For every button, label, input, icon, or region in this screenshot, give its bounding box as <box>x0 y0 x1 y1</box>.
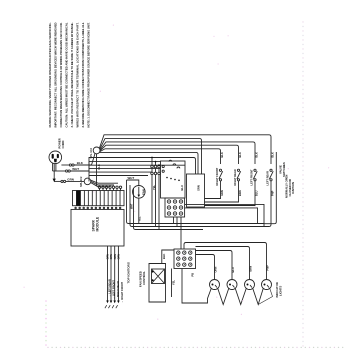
label INDICATOR LIGHTS <box>275 282 283 297</box>
label BLK switch LEFT REAR <box>270 152 274 157</box>
svg-text:WHT: WHT <box>72 167 79 171</box>
junction loops on bus near B1 <box>169 160 180 168</box>
terminal strip TB1 <box>73 191 125 206</box>
fan speed control box B3 <box>149 250 174 302</box>
fan motor M1 <box>133 186 146 199</box>
label GRN <box>67 177 74 181</box>
svg-text:MODULE: MODULE <box>96 216 100 231</box>
wire BLK plug to splice SPL-1 <box>61 154 95 167</box>
valve switch RIGHT REAR <box>205 169 241 202</box>
svg-text:CORD: CORD <box>61 141 65 149</box>
label BLK switch RIGHT FRONT <box>220 152 224 157</box>
splice SPL-1 <box>93 147 100 154</box>
label SPL 1C2 lower <box>79 176 83 187</box>
svg-text:BLK: BLK <box>162 254 166 259</box>
valve switch RIGHT FRONT <box>205 169 223 198</box>
svg-text:WHT: WHT <box>128 176 135 180</box>
svg-text:SPL 1C2: SPL 1C2 <box>79 176 83 187</box>
svg-text:CAUTION: ALL WIRES MUST BE CON: CAUTION: ALL WIRES MUST BE CONNECTED AND… <box>65 22 69 127</box>
svg-text:BLK: BLK <box>220 152 224 157</box>
ground arrow <box>53 177 56 183</box>
splice SPL-2 <box>84 178 91 185</box>
svg-text:2. BEFORE REMOVING WIRE CONNEC: 2. BEFORE REMOVING WIRE CONNECTIONS FROM… <box>81 22 85 127</box>
fan speed switch S5 <box>152 269 165 284</box>
wire bus middle group <box>89 158 196 182</box>
spark module top pins <box>75 207 121 209</box>
svg-text:ORN: ORN <box>214 267 218 273</box>
svg-text:YEL: YEL <box>137 216 141 221</box>
label wire color BLU <box>254 191 258 196</box>
labels light wire colors <box>214 265 270 273</box>
svg-text:BLK: BLK <box>77 161 84 165</box>
scan artifact dotted column left <box>45 300 47 346</box>
label SPARK MODULE <box>91 216 99 231</box>
svg-text:BRN: BRN <box>238 190 242 196</box>
wire WHT plug to bus <box>53 170 89 172</box>
svg-text:BRN: BRN <box>249 266 253 272</box>
note text block <box>48 22 91 128</box>
wire YEL below CB2 <box>171 269 173 298</box>
svg-text:BLK: BLK <box>238 152 242 157</box>
label YEL left of B1 <box>152 185 156 190</box>
label FAN SPEED CONTROL <box>138 271 146 287</box>
svg-text:→ LEFT REAR: → LEFT REAR <box>108 279 112 297</box>
wire cord down from plug <box>53 163 56 177</box>
svg-text:ORN: ORN <box>118 254 121 260</box>
svg-text:3. CHECK VOLTAGE AT WALL RECEP: 3. CHECK VOLTAGE AT WALL RECEPTACLE TO B… <box>70 22 74 127</box>
svg-text:WIRES WITH RESPECT TO THEIR TE: WIRES WITH RESPECT TO THEIR TERMINAL LOC… <box>76 22 80 127</box>
svg-text:→ RIGHT FRONT: → RIGHT FRONT <box>120 282 124 303</box>
svg-text:DURING SERVICING. VERIFY PROPE: DURING SERVICING. VERIFY PROPER OPERATIO… <box>48 22 52 127</box>
svg-text:BLU: BLU <box>231 267 235 272</box>
svg-text:YEL: YEL <box>152 185 156 190</box>
svg-text:PB: PB <box>191 273 195 277</box>
label BLK switch LEFT FRONT <box>254 152 258 157</box>
wires spark module to top ignitors <box>105 246 120 308</box>
scan artifact dotted column right <box>302 21 303 346</box>
svg-text:GRN: GRN <box>197 185 201 191</box>
label BLU in B1 <box>180 185 184 190</box>
svg-text:BLK: BLK <box>270 152 274 157</box>
svg-text:GRN: GRN <box>220 190 224 196</box>
labels ORN on ignitor wires <box>107 254 121 260</box>
svg-text:RIGHT REAR: RIGHT REAR <box>233 169 237 185</box>
label wire color BRN <box>238 190 242 196</box>
power cord plug P1 <box>49 151 62 164</box>
wires CB1 right exits <box>185 204 264 226</box>
scan artifact dotted row bottom <box>47 347 343 348</box>
label WHT <box>72 167 79 171</box>
labels ignitor names <box>108 279 124 303</box>
svg-text:FAN: FAN <box>142 189 146 195</box>
junction dots under B1 <box>166 177 180 181</box>
svg-text:LEFT REAR: LEFT REAR <box>265 171 269 186</box>
label WHT small <box>130 203 133 209</box>
gas valve box B2 <box>187 174 205 207</box>
wire feed indicator light 2 <box>196 251 233 280</box>
indicator light L3 <box>245 280 255 290</box>
valve switch LEFT REAR <box>269 169 273 183</box>
indicator light L2 <box>227 280 237 290</box>
svg-text:→ RIGHT REAR: → RIGHT REAR <box>116 281 120 301</box>
label switch name RIGHT REAR <box>233 169 237 185</box>
wire feed indicator light 3 <box>196 247 250 280</box>
svg-text:BLU: BLU <box>180 185 184 190</box>
label wire color PNP <box>270 190 274 196</box>
scan noise specks <box>24 25 330 320</box>
wires CB1 bottom <box>174 217 182 249</box>
svg-text:NOTE: 1. DISCONNECT RANGE FROM: NOTE: 1. DISCONNECT RANGE FROM POWER SOU… <box>87 22 91 127</box>
wire bus top from SPL-1 to valve switches <box>99 135 271 174</box>
svg-text:IMPORTANT: RECONNECT ALL GROUN: IMPORTANT: RECONNECT ALL GROUNDING DEVIC… <box>54 22 58 128</box>
label FAN <box>142 189 146 195</box>
svg-text:BLU: BLU <box>254 191 258 196</box>
junction loops above terminal strip <box>98 186 121 190</box>
label NORMALLY OPEN CLOSED FOR IGNITION <box>285 175 296 198</box>
wire GRN plug to splice SPL-2 <box>54 180 84 182</box>
indicator light L4 <box>262 280 272 290</box>
svg-text:YEL: YEL <box>172 280 176 285</box>
label PB <box>191 273 195 277</box>
svg-text:BLK: BLK <box>254 152 258 157</box>
svg-text:→ LEFT FRONT: → LEFT FRONT <box>112 280 116 300</box>
connector block CB2 3x3 <box>174 249 196 269</box>
label BLK <box>77 161 84 165</box>
label GRN in B2 <box>197 185 201 191</box>
oven control box B1 <box>161 161 186 198</box>
svg-text:IGNITION: IGNITION <box>291 182 295 194</box>
svg-text:PNP: PNP <box>266 265 270 271</box>
wire feed indicator light 1 <box>196 255 215 280</box>
wire fanout SPL-2 to terminal strip <box>91 180 118 187</box>
label POWER CORD <box>58 138 65 148</box>
svg-text:ORN: ORN <box>114 254 117 260</box>
label wire color GRN <box>220 190 224 196</box>
svg-text:LEFT FRONT: LEFT FRONT <box>249 169 253 186</box>
indicator light L1 <box>210 280 220 290</box>
svg-text:CONTROL: CONTROL <box>142 271 146 285</box>
label BLK fsc <box>162 254 166 259</box>
valve switch LEFT FRONT <box>205 169 258 205</box>
label WHT fan <box>128 176 135 180</box>
svg-text:TOP IGNITORS: TOP IGNITORS <box>127 262 131 283</box>
label BLK vertical <box>97 164 101 169</box>
wire feed indicator light 4 <box>184 243 267 280</box>
label SPL 1C2 upper <box>89 147 93 158</box>
wire bottom bus upper section <box>127 180 272 230</box>
wire right outer vertical <box>264 152 276 224</box>
wires vertical center with inline connectors <box>151 157 161 230</box>
label BLK switch RIGHT REAR <box>238 152 242 157</box>
wire BLK splice SPL-1 down to strip <box>96 154 98 186</box>
svg-text:ORN: ORN <box>110 254 113 260</box>
wire lamp commons zigzag <box>182 269 273 305</box>
svg-text:GRN: GRN <box>67 177 74 181</box>
svg-text:CONNECTION WHEN SERVICING CONT: CONNECTION WHEN SERVICING CONTROLS OR WI… <box>59 22 63 127</box>
wire WHT to fan <box>127 180 139 186</box>
wire YEL fan down <box>138 198 140 223</box>
pins in box B1 <box>162 165 164 172</box>
connector block CB1 3x3 <box>165 198 185 217</box>
label YEL fan <box>137 216 141 221</box>
label TOP IGNITORS <box>127 262 131 283</box>
svg-text:RIGHT FRONT: RIGHT FRONT <box>215 167 219 185</box>
spark module U1 <box>71 210 124 247</box>
label switch name LEFT REAR <box>265 171 269 186</box>
label switch name LEFT FRONT <box>249 169 253 186</box>
label switch name RIGHT FRONT <box>215 167 219 185</box>
label YEL fsc <box>172 280 176 285</box>
label VALVE SWITCHES <box>279 162 287 177</box>
svg-text:SPL 1C2: SPL 1C2 <box>89 147 93 158</box>
svg-text:PNP: PNP <box>270 190 274 196</box>
svg-text:WHT: WHT <box>130 203 133 209</box>
svg-text:LIGHTS: LIGHTS <box>278 286 282 296</box>
